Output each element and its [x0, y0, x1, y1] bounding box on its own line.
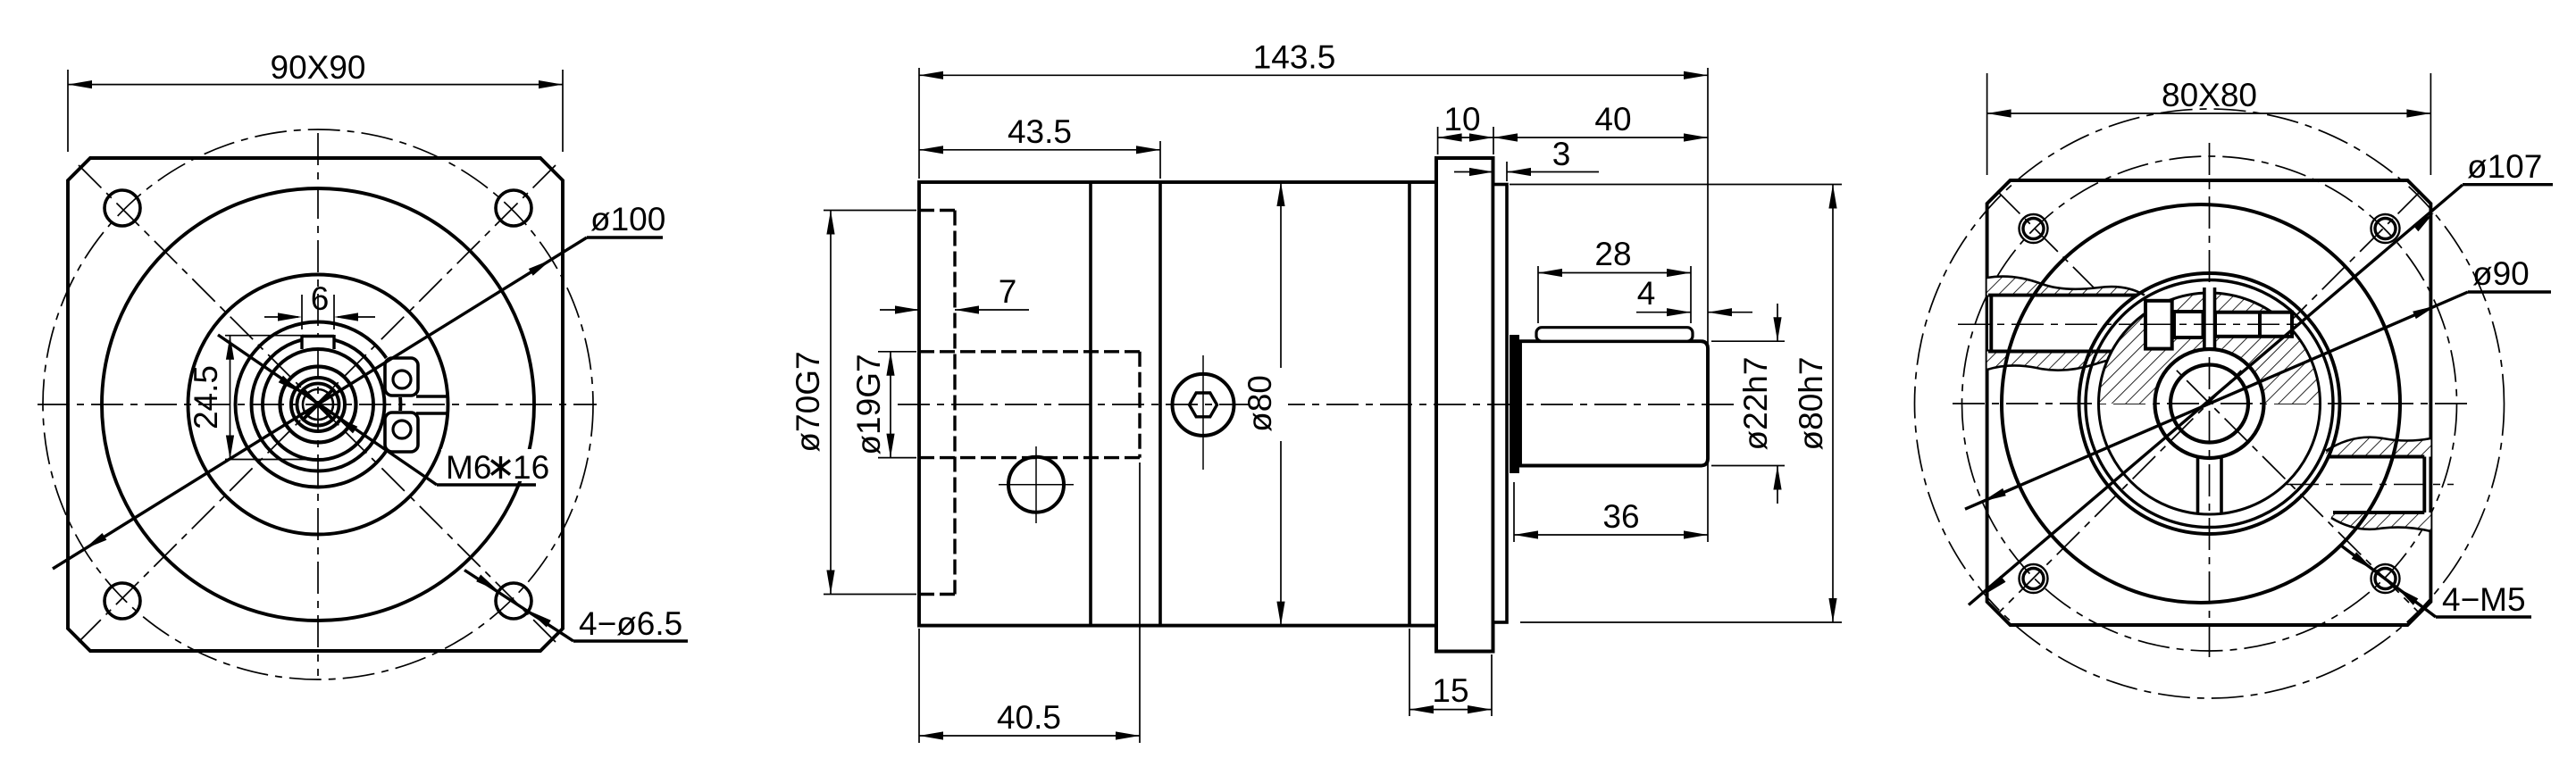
collar ring outer — [2079, 273, 2340, 534]
hidden bore d19G7 dashed — [919, 350, 1140, 353]
centerline horizontal — [38, 404, 597, 405]
svg-text:7: 7 — [999, 273, 1017, 310]
dim 40.5 — [919, 735, 1140, 737]
clamp tab lower hole — [393, 421, 411, 438]
svg-text:ø107: ø107 — [2467, 148, 2542, 185]
input hub broken-out section left bar — [1987, 277, 2145, 296]
collar bore circle — [2099, 293, 2321, 514]
centerline vertical — [2209, 143, 2211, 664]
bolt hole M5 top-left — [2020, 214, 2048, 243]
svg-text:90X90: 90X90 — [271, 49, 366, 86]
pilot boss d80h7 — [1493, 185, 1508, 623]
bolt hole bottom-right — [496, 583, 531, 619]
dim d19G7 extension lines — [878, 351, 916, 353]
dim 24.5 — [230, 336, 231, 460]
centerline diagonal 2 — [1997, 191, 2421, 614]
clamp screw head section box — [2145, 301, 2172, 349]
dim d80 — [1280, 182, 1282, 626]
circle d30 step — [236, 322, 401, 487]
hatched clamp collar section (upper annulus) — [2099, 293, 2321, 404]
leader d90 line — [1965, 292, 2468, 509]
hub circle inner — [2170, 365, 2248, 443]
dim d70G7 — [830, 211, 832, 595]
dim 40 — [1493, 137, 1708, 138]
centerline vertical — [317, 133, 319, 676]
clamp screw circle M6 — [297, 384, 339, 426]
bolt hole M5 bottom-right — [2371, 564, 2400, 593]
clamp collar outer circle — [188, 275, 448, 535]
dim 90X90 extension lines — [67, 70, 69, 152]
svg-text:4−ø6.5: 4−ø6.5 — [579, 605, 682, 642]
leader d100 line — [53, 237, 587, 569]
clamp tab upper — [385, 358, 418, 396]
svg-text:M6: M6 — [446, 449, 491, 486]
bolt hole bottom-left — [105, 583, 140, 619]
dim 36 extension line — [1513, 482, 1515, 542]
dim 143.5 — [919, 74, 1708, 76]
svg-text:ø19G7: ø19G7 — [850, 354, 887, 454]
dim d80h7 — [1832, 185, 1834, 623]
dim 10 — [1438, 137, 1493, 138]
dim d19G7 — [890, 352, 891, 458]
keyway circle — [252, 338, 385, 471]
output shaft d22h7 — [1520, 341, 1708, 465]
left view: output flange square 90x90 — [68, 158, 563, 651]
shaft center circle — [303, 389, 333, 420]
svg-text:6: 6 — [311, 280, 330, 317]
body joint line 1 — [1089, 182, 1092, 626]
leader M6x16 line — [218, 335, 437, 485]
screw axis dash-dot — [2140, 323, 2297, 325]
left bar end face — [1989, 296, 1993, 352]
dim 80X80 — [1987, 112, 2431, 114]
clamp screw broken-out section right bar — [2326, 437, 2430, 457]
pilot circle d70 — [2002, 204, 2400, 603]
centerline diagonal 2 — [79, 165, 556, 642]
pilot circle d80 — [102, 188, 534, 621]
circle ring 4 — [280, 367, 356, 443]
left bar break lines (wavy) — [1987, 277, 2145, 296]
dim 80X80 extension lines — [1986, 73, 1988, 175]
clamp screw tapped hole section box — [2215, 312, 2292, 337]
center cross X — [302, 388, 334, 421]
label M6x16 — [441, 449, 547, 481]
svg-text:80X80: 80X80 — [2162, 77, 2257, 113]
svg-text:16: 16 — [513, 449, 549, 486]
bore circle d19 — [263, 349, 373, 460]
centerline diagonal 1 — [79, 165, 556, 642]
dim 10 extension lines — [1437, 127, 1439, 154]
bolt hole M5 bottom-left — [2020, 564, 2048, 593]
shaft keyway slot — [1536, 328, 1693, 342]
right view: input flange square 80x80 — [1987, 180, 2431, 625]
svg-text:4: 4 — [1637, 275, 1656, 312]
collar ring inner — [2086, 280, 2333, 528]
svg-text:ø80h7: ø80h7 — [1793, 357, 1829, 451]
svg-text:36: 36 — [1602, 498, 1639, 535]
dim d22h7 extension lines — [1711, 340, 1785, 342]
dim 43.5 — [919, 149, 1160, 151]
bottom slit channel — [2196, 458, 2200, 514]
locking set screw (hex socket) — [1173, 374, 1234, 436]
svg-text:ø70G7: ø70G7 — [790, 351, 826, 452]
clamp screw shank section box — [2174, 312, 2204, 337]
leader d107 line — [1969, 185, 2463, 605]
clamp slit lines — [416, 395, 447, 397]
hidden pilot recess d70G7 dashed — [919, 209, 955, 212]
centerline axis — [898, 404, 1737, 405]
bolt hole M5 top-right — [2371, 214, 2400, 243]
hub circle d19 — [2155, 349, 2264, 458]
middle view: section body — [919, 182, 1436, 626]
dim 3 — [1454, 171, 1493, 173]
svg-text:40.5: 40.5 — [997, 699, 1061, 736]
body joint line 3 — [1408, 182, 1411, 626]
dim 6 extension ticks — [301, 295, 303, 329]
keyway slot — [302, 335, 334, 349]
right bar bore walls — [2329, 455, 2424, 459]
svg-text:28: 28 — [1594, 236, 1631, 272]
clamp screw access hole — [1008, 457, 1064, 512]
dim 43.5 extension line — [1159, 141, 1161, 179]
bolt hole top-left — [105, 190, 140, 226]
dim d80h7 extension lines — [1510, 184, 1842, 186]
dim 7 — [880, 309, 919, 311]
dim 15 — [1409, 709, 1492, 711]
svg-text:ø100: ø100 — [590, 201, 665, 237]
locking set screw centerline — [1202, 355, 1204, 470]
right bar break lines (wavy) — [2326, 437, 2430, 451]
dim 28 extension lines — [1537, 266, 1539, 323]
dim 143.5 extension lines — [918, 68, 920, 179]
clamp tab upper hole — [393, 371, 411, 388]
bolt circle d100 dashed — [43, 129, 593, 679]
svg-text:ø80: ø80 — [1242, 375, 1278, 432]
svg-text:24.5: 24.5 — [188, 365, 224, 429]
dim 6 — [264, 316, 298, 318]
centerline diagonal 1 — [1997, 191, 2421, 614]
leader 4-d6.5 line — [464, 571, 573, 642]
svg-text:40: 40 — [1594, 101, 1631, 137]
dim 90X90 — [68, 84, 563, 86]
clamp tabs white-out — [383, 356, 420, 397]
clamp tab lower — [385, 412, 418, 452]
dim d22h7 — [1777, 304, 1778, 341]
leader 4-M5 line — [2341, 546, 2436, 617]
dim 15 extension lines — [1409, 629, 1410, 716]
right bar end face — [2422, 457, 2426, 513]
left bar bore walls — [1988, 294, 2137, 297]
dim 40.5 extension lines — [918, 629, 920, 743]
svg-text:10: 10 — [1443, 101, 1480, 137]
spacer washer (solid section) — [1510, 335, 1519, 473]
svg-text:15: 15 — [1432, 672, 1468, 709]
svg-text:143.5: 143.5 — [1253, 39, 1336, 76]
right bar axis — [2287, 484, 2454, 486]
svg-text:3: 3 — [1552, 136, 1571, 172]
dim 24.5 extension lines — [225, 335, 304, 337]
dim 4 — [1636, 312, 1691, 313]
circle d107 dashed — [1915, 109, 2505, 698]
bolt circle d90 dashed — [1962, 156, 2457, 651]
bolt hole top-right — [496, 190, 531, 226]
body joint line 2 — [1158, 182, 1162, 626]
svg-text:4−M5: 4−M5 — [2442, 581, 2526, 618]
left bar axis — [1958, 323, 2300, 325]
svg-text:ø90: ø90 — [2472, 255, 2530, 292]
dim 28 — [1538, 272, 1691, 274]
dim 36 — [1514, 534, 1708, 536]
svg-text:ø22h7: ø22h7 — [1737, 357, 1774, 451]
top slit channel — [2204, 284, 2215, 350]
output flange plate — [1436, 158, 1493, 652]
svg-text:43.5: 43.5 — [1008, 113, 1072, 150]
dim d70G7 extension lines — [824, 210, 916, 212]
centerline horizontal — [1953, 403, 2467, 404]
dim 3 extension tick — [1506, 162, 1508, 181]
circle ring 3 — [291, 378, 345, 431]
